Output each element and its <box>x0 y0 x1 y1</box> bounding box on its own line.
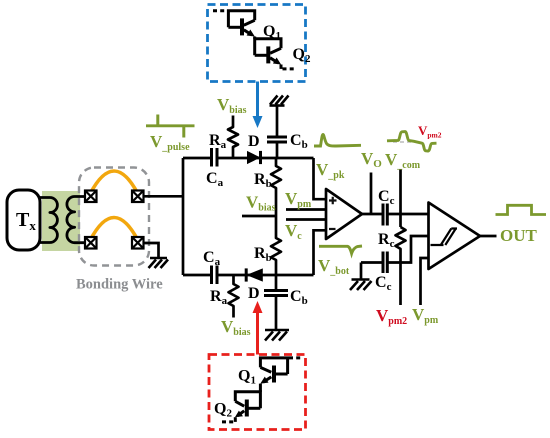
Vcom stub and Rc line <box>399 170 402 228</box>
Vcom waveform baseline dashes <box>393 141 414 143</box>
ground (below Cb bottom) <box>265 330 289 341</box>
transformer core area (green) <box>42 191 80 251</box>
transistor Q2 (bottom box) <box>222 392 260 422</box>
middle vertical with Rb top and Rb bottom <box>271 158 281 275</box>
wire top to op-amp plus input <box>314 158 327 199</box>
transistor Q1 (top box) <box>213 11 255 39</box>
capacitor Cc top <box>383 204 387 226</box>
blue arrow <box>256 82 259 118</box>
Vpm input stub <box>286 208 326 211</box>
resistor Rc <box>396 227 406 263</box>
wire bottom to op-amp minus input <box>314 230 327 275</box>
transformer primary winding <box>40 198 57 243</box>
op-amp U1 <box>326 189 362 239</box>
comparator mid input wire <box>401 236 429 263</box>
bond pad top-right <box>132 191 144 203</box>
Tx block <box>7 190 40 250</box>
svg-text:D: D <box>248 133 260 150</box>
bonding wire dashed box <box>79 168 149 266</box>
svg-text:OUT: OUT <box>500 226 538 245</box>
wire op-amp out to comparator <box>362 213 429 216</box>
ground (top, above Cb) <box>270 96 289 106</box>
hysteresis symbol <box>431 229 458 246</box>
Vpulse waveform <box>146 124 195 127</box>
Vc input stub <box>286 218 326 221</box>
svg-text:D: D <box>248 285 260 302</box>
capacitor Cb bottom <box>275 275 278 330</box>
Vpk waveform <box>314 135 361 147</box>
bond wire arc top <box>90 171 138 194</box>
VO stub <box>370 173 373 215</box>
capacitor Ca bottom <box>212 266 218 285</box>
op-amp plus/minus marks <box>329 197 337 229</box>
red arrow <box>256 312 259 355</box>
wire pad to ground <box>144 243 159 258</box>
Vpm vertical line <box>421 258 429 305</box>
diode D bottom <box>246 268 263 281</box>
transistor Q1 (bottom box) <box>260 358 303 392</box>
wire input to left rail <box>144 195 184 198</box>
ground (Cc) <box>360 263 363 280</box>
comparator output wire <box>480 235 497 238</box>
blue dashed box <box>208 5 306 82</box>
capacitor Cb top <box>276 107 279 159</box>
diode D top <box>247 151 261 164</box>
capacitor Ca top <box>212 148 218 167</box>
resistor Ra top <box>228 116 238 159</box>
bond pad bottom-left <box>85 237 97 249</box>
wire left rail <box>182 158 185 275</box>
transistor Q2 (top box) <box>255 39 296 69</box>
bond pad bottom-right <box>132 237 144 249</box>
red dashed box <box>209 355 306 430</box>
Vbot waveform <box>319 246 362 254</box>
Vbias middle wire <box>242 215 276 218</box>
ground (bonding) <box>149 258 169 268</box>
bond pad top-left <box>85 191 97 203</box>
wire top branch <box>183 157 314 160</box>
OUT pulse waveform <box>496 205 547 214</box>
transformer secondary winding <box>67 197 86 243</box>
resistor Ra bottom <box>229 275 239 318</box>
comparator U2 <box>429 203 481 270</box>
svg-text:Bonding Wire: Bonding Wire <box>76 277 163 293</box>
capacitor Cc bottom <box>361 261 401 264</box>
bond wire arc bottom <box>90 218 138 241</box>
Vpm2 vertical line <box>399 263 402 306</box>
wire bottom branch <box>183 274 314 277</box>
Vcom waveform with Vpm2 annotation <box>387 132 437 151</box>
